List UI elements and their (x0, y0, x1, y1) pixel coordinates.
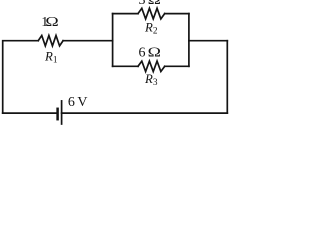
svg-text:Ω: Ω (45, 15, 58, 30)
wire: top branch left segment (113, 13, 138, 15)
battery V1 6V: negative plate (short, thick) (56, 109, 59, 119)
resistor R2 (138, 8, 165, 19)
resistor R3 (138, 61, 165, 71)
svg-text:6: 6 (139, 46, 146, 61)
wire: bottom from battery negative plate to left (3, 112, 58, 114)
svg-text:R2: R2 (144, 21, 158, 37)
svg-text:R3: R3 (144, 72, 158, 88)
resistor R1 (38, 36, 63, 46)
wire: left side and top to R1 (3, 41, 39, 113)
node B: right junction vertical of parallel box (188, 14, 190, 67)
wire: bottom branch right segment (165, 65, 189, 67)
node A: left junction vertical of parallel box (112, 14, 114, 67)
svg-text:Ω: Ω (148, 0, 161, 7)
svg-text:R1: R1 (44, 50, 58, 66)
svg-text:6 V: 6 V (68, 95, 88, 110)
wire: bottom branch left segment (113, 65, 138, 67)
wire: bottom from right to battery positive plate (62, 112, 228, 114)
wire: outer right vertical (226, 41, 228, 113)
wire: top branch right segment (165, 13, 189, 15)
battery V1 6V: positive plate (long) (61, 101, 63, 124)
wire: R1 to parallel box left node (63, 40, 113, 42)
svg-text:3: 3 (139, 0, 146, 8)
wire: box right node to outer right (189, 40, 227, 42)
svg-text:Ω: Ω (148, 45, 161, 60)
